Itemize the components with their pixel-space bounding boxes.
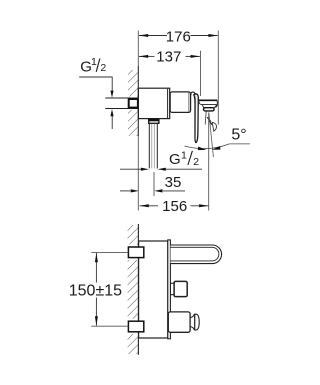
- svg-text:5°: 5°: [231, 126, 246, 143]
- svg-text:156: 156: [162, 198, 187, 215]
- svg-text:2: 2: [100, 62, 106, 74]
- svg-text:137: 137: [156, 49, 181, 66]
- svg-text:35: 35: [165, 174, 182, 191]
- svg-text:2: 2: [193, 156, 199, 168]
- svg-text:1: 1: [181, 149, 187, 161]
- svg-text:150±15: 150±15: [69, 282, 122, 299]
- svg-text:1: 1: [91, 56, 97, 68]
- svg-text:G: G: [169, 151, 181, 168]
- svg-text:176: 176: [166, 28, 191, 45]
